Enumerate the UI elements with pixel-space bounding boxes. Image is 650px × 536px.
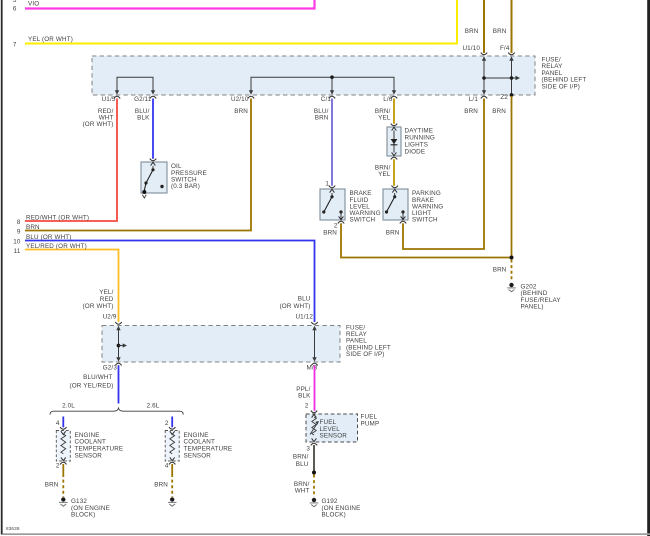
svg-text:8: 8 bbox=[17, 219, 21, 226]
wire BRN dashed to G202 bbox=[493, 260, 512, 282]
svg-text:BLU/WHT: BLU/WHT bbox=[83, 374, 112, 381]
wire YEL/RED row 11 to U2/9 bbox=[14, 243, 119, 322]
page left border bar bbox=[1, 0, 3, 535]
svg-text:BRN: BRN bbox=[386, 230, 400, 237]
svg-text:BRN: BRN bbox=[493, 28, 507, 35]
svg-text:L/6: L/6 bbox=[383, 96, 393, 103]
svg-text:4: 4 bbox=[56, 420, 60, 427]
wire VIO row 6 bbox=[25, 0, 315, 9]
svg-text:SIDE OF I/P): SIDE OF I/P) bbox=[542, 83, 581, 90]
engine coolant temperature sensor (2.8L) G62 bbox=[165, 427, 232, 464]
ground G132 bbox=[59, 497, 110, 518]
svg-text:BLK: BLK bbox=[298, 393, 311, 400]
panel 1 terminal labels bottom bbox=[102, 94, 509, 103]
svg-text:BRN: BRN bbox=[465, 28, 479, 35]
svg-text:BLOCK): BLOCK) bbox=[71, 512, 95, 519]
wire BRN/BLU from fuel pump to junction bbox=[293, 445, 316, 475]
svg-text:3: 3 bbox=[306, 446, 310, 453]
svg-text:BRN: BRN bbox=[492, 108, 506, 115]
wire YEL row 7 bbox=[25, 0, 457, 44]
wire BLU row 10 to U1/12 bbox=[13, 234, 314, 322]
svg-text:4: 4 bbox=[165, 462, 169, 469]
svg-text:1: 1 bbox=[325, 181, 329, 188]
svg-text:7: 7 bbox=[13, 41, 17, 48]
brake fluid level warning switch S1 bbox=[320, 181, 381, 230]
svg-text:9: 9 bbox=[17, 229, 21, 236]
daytime running lights diode D1 bbox=[387, 124, 435, 160]
svg-text:SIDE OF I/P): SIDE OF I/P) bbox=[346, 351, 385, 358]
svg-text:BRN: BRN bbox=[464, 108, 478, 115]
svg-text:BRN/: BRN/ bbox=[293, 454, 309, 461]
panel 1 internal link U1/5 to G2/11 bbox=[114, 77, 156, 98]
svg-text:F/4: F/4 bbox=[500, 45, 510, 52]
wire BRN from Z2 to ground junction bbox=[492, 96, 513, 260]
svg-text:BLU: BLU bbox=[298, 296, 311, 303]
parking brake warning light switch S2 bbox=[383, 186, 443, 224]
oil pressure switch U1 bbox=[141, 159, 207, 198]
wire BRN from parking brake switch to L/1 bbox=[386, 99, 484, 250]
svg-text:2: 2 bbox=[56, 462, 60, 469]
page bottom rule bbox=[3, 533, 650, 535]
svg-text:SENSOR: SENSOR bbox=[75, 453, 103, 460]
svg-text:BLU (OR WHT): BLU (OR WHT) bbox=[26, 234, 72, 241]
wire BRN to U1/10 bbox=[462, 0, 484, 53]
wire BRN/YEL from L/6 to diode bbox=[375, 99, 394, 124]
panel 2 internal feed U2/9 to G2/3 with tap arrow bbox=[115, 322, 127, 365]
svg-text:DIODE: DIODE bbox=[405, 149, 426, 156]
ground G202 bbox=[507, 283, 561, 311]
svg-text:11: 11 bbox=[14, 248, 21, 255]
svg-text:YEL (OR WHT): YEL (OR WHT) bbox=[28, 36, 73, 43]
svg-text:U2/9: U2/9 bbox=[103, 313, 117, 320]
svg-text:83638: 83638 bbox=[6, 526, 20, 531]
svg-text:U2/10: U2/10 bbox=[231, 96, 249, 103]
svg-text:RED: RED bbox=[100, 296, 114, 303]
svg-text:RUNNING: RUNNING bbox=[405, 135, 435, 142]
svg-text:2: 2 bbox=[165, 420, 169, 427]
fuel pump box with fuel level sensor G bbox=[306, 411, 379, 446]
svg-text:Z2: Z2 bbox=[500, 94, 508, 101]
svg-text:2.0L: 2.0L bbox=[62, 402, 75, 409]
svg-text:U1/12: U1/12 bbox=[295, 313, 313, 320]
svg-text:(OR WHT): (OR WHT) bbox=[280, 303, 311, 310]
svg-text:RED/WHT (OR WHT): RED/WHT (OR WHT) bbox=[26, 214, 89, 221]
panel 2 terminal labels bottom bbox=[103, 364, 318, 371]
svg-text:BLU: BLU bbox=[296, 461, 309, 468]
svg-text:DAYTIME: DAYTIME bbox=[405, 128, 434, 135]
svg-text:BRN: BRN bbox=[234, 108, 248, 115]
svg-text:BRN: BRN bbox=[26, 224, 40, 231]
svg-text:2: 2 bbox=[305, 403, 309, 410]
svg-text:2: 2 bbox=[334, 223, 338, 230]
svg-text:PUMP: PUMP bbox=[361, 421, 380, 428]
wire BRN from 2.0L sensor to G132 bbox=[45, 462, 64, 497]
fuse/relay panel 1 box bbox=[92, 56, 586, 95]
ground (2.8L sensor) bbox=[168, 497, 177, 506]
wire BRN from brake fluid switch to splice bbox=[323, 223, 510, 257]
svg-text:YEL/RED (OR WHT): YEL/RED (OR WHT) bbox=[26, 243, 87, 250]
svg-text:C/1: C/1 bbox=[321, 96, 332, 103]
svg-text:5: 5 bbox=[13, 0, 17, 4]
svg-text:10: 10 bbox=[13, 239, 21, 246]
wire BLU/WHT branch 2.8L bbox=[165, 417, 172, 428]
panel 2 internal feed U1/12 to M/3 bbox=[311, 322, 317, 365]
svg-text:M/3: M/3 bbox=[307, 364, 318, 371]
wire RED/WHT from U1/5 to row 8 bbox=[17, 99, 117, 227]
svg-text:(OR WHT): (OR WHT) bbox=[83, 303, 114, 310]
svg-text:YEL: YEL bbox=[378, 171, 391, 178]
wire BRN/YEL from diode to parking brake switch bbox=[375, 159, 394, 186]
wire BRN from U2/10 to row 9 bbox=[17, 99, 251, 236]
svg-text:BRN: BRN bbox=[493, 267, 507, 274]
panel 1 internal link U2/10 to C/1 to L/6 bbox=[248, 75, 397, 98]
svg-text:(OR WHT): (OR WHT) bbox=[83, 121, 114, 128]
svg-text:WHT: WHT bbox=[295, 488, 310, 495]
svg-text:U1/10: U1/10 bbox=[462, 45, 480, 52]
svg-text:PANEL): PANEL) bbox=[521, 304, 544, 311]
svg-text:(0.3 BAR): (0.3 BAR) bbox=[171, 183, 200, 190]
svg-text:BLK: BLK bbox=[137, 115, 150, 122]
page right border line bbox=[647, 0, 650, 536]
svg-text:SENSOR: SENSOR bbox=[184, 453, 212, 460]
svg-text:SWITCH: SWITCH bbox=[412, 217, 438, 224]
svg-text:U1/5: U1/5 bbox=[102, 96, 116, 103]
svg-text:VIO: VIO bbox=[28, 1, 39, 8]
svg-text:BRN: BRN bbox=[154, 482, 168, 489]
svg-text:YEL: YEL bbox=[378, 114, 391, 121]
engine coolant temperature sensor (2.0L) G62 bbox=[56, 427, 123, 464]
svg-text:SENSOR: SENSOR bbox=[320, 433, 348, 440]
svg-text:BLOCK): BLOCK) bbox=[322, 512, 346, 519]
svg-text:2.6L: 2.6L bbox=[147, 402, 160, 409]
svg-text:(OR YEL/RED): (OR YEL/RED) bbox=[69, 382, 113, 389]
wire BLU/BLK from G2/11 to oil pressure switch bbox=[135, 99, 153, 159]
panel 1 internal feed F/4 to splice Z2 bbox=[508, 53, 514, 97]
svg-text:BRN: BRN bbox=[45, 482, 59, 489]
fuse/relay panel 2 box bbox=[102, 325, 391, 363]
svg-text:SWITCH: SWITCH bbox=[350, 217, 376, 224]
svg-text:BRN: BRN bbox=[315, 114, 329, 121]
wire BRN to F/4 bbox=[493, 0, 512, 53]
svg-text:G2/3: G2/3 bbox=[103, 364, 118, 371]
ground G192 bbox=[310, 498, 361, 519]
svg-text:LIGHTS: LIGHTS bbox=[405, 142, 429, 149]
svg-text:6: 6 bbox=[13, 6, 17, 13]
wire BLU/WHT from G2/3 to engine split bbox=[69, 365, 118, 403]
wire BLU/WHT branch 2.0L bbox=[56, 417, 63, 428]
wire PPL/BLK from M/3 to fuel pump bbox=[296, 365, 314, 411]
svg-text:L/1: L/1 bbox=[469, 96, 479, 103]
wire BRN/WHT dashed to G192 bbox=[294, 475, 314, 498]
svg-text:G2/11: G2/11 bbox=[134, 96, 152, 103]
engine variant split brace bbox=[50, 402, 183, 414]
wire BRN from 2.8L sensor to ground bbox=[154, 462, 172, 497]
svg-text:YEL/: YEL/ bbox=[99, 289, 113, 296]
panel 1 internal feed U1/10 to L/1 with tap arrow bbox=[481, 53, 520, 99]
svg-text:BRN: BRN bbox=[323, 230, 337, 237]
wire BLU/BRN from C/1 to brake fluid switch bbox=[314, 99, 332, 186]
